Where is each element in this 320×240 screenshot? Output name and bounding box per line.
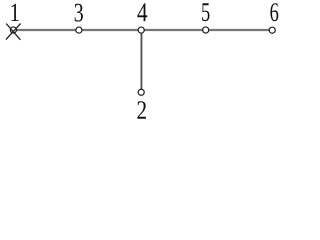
wire vertical branch 4-2 — [140, 30, 142, 92]
label 2 — [137, 101, 145, 119]
label 1 — [11, 4, 18, 21]
label 4 — [137, 3, 147, 21]
node 1 crossed out — [6, 24, 21, 40]
node 6 — [269, 27, 275, 33]
node 5 — [203, 27, 209, 33]
label 3 — [75, 4, 83, 22]
node 3 — [76, 27, 82, 33]
label 6 — [270, 3, 278, 21]
node 2 — [138, 89, 144, 95]
node 4 — [138, 27, 144, 33]
wire horizontal chain 1-3-4-5-6 — [13, 29, 272, 31]
label 5 — [202, 3, 209, 21]
